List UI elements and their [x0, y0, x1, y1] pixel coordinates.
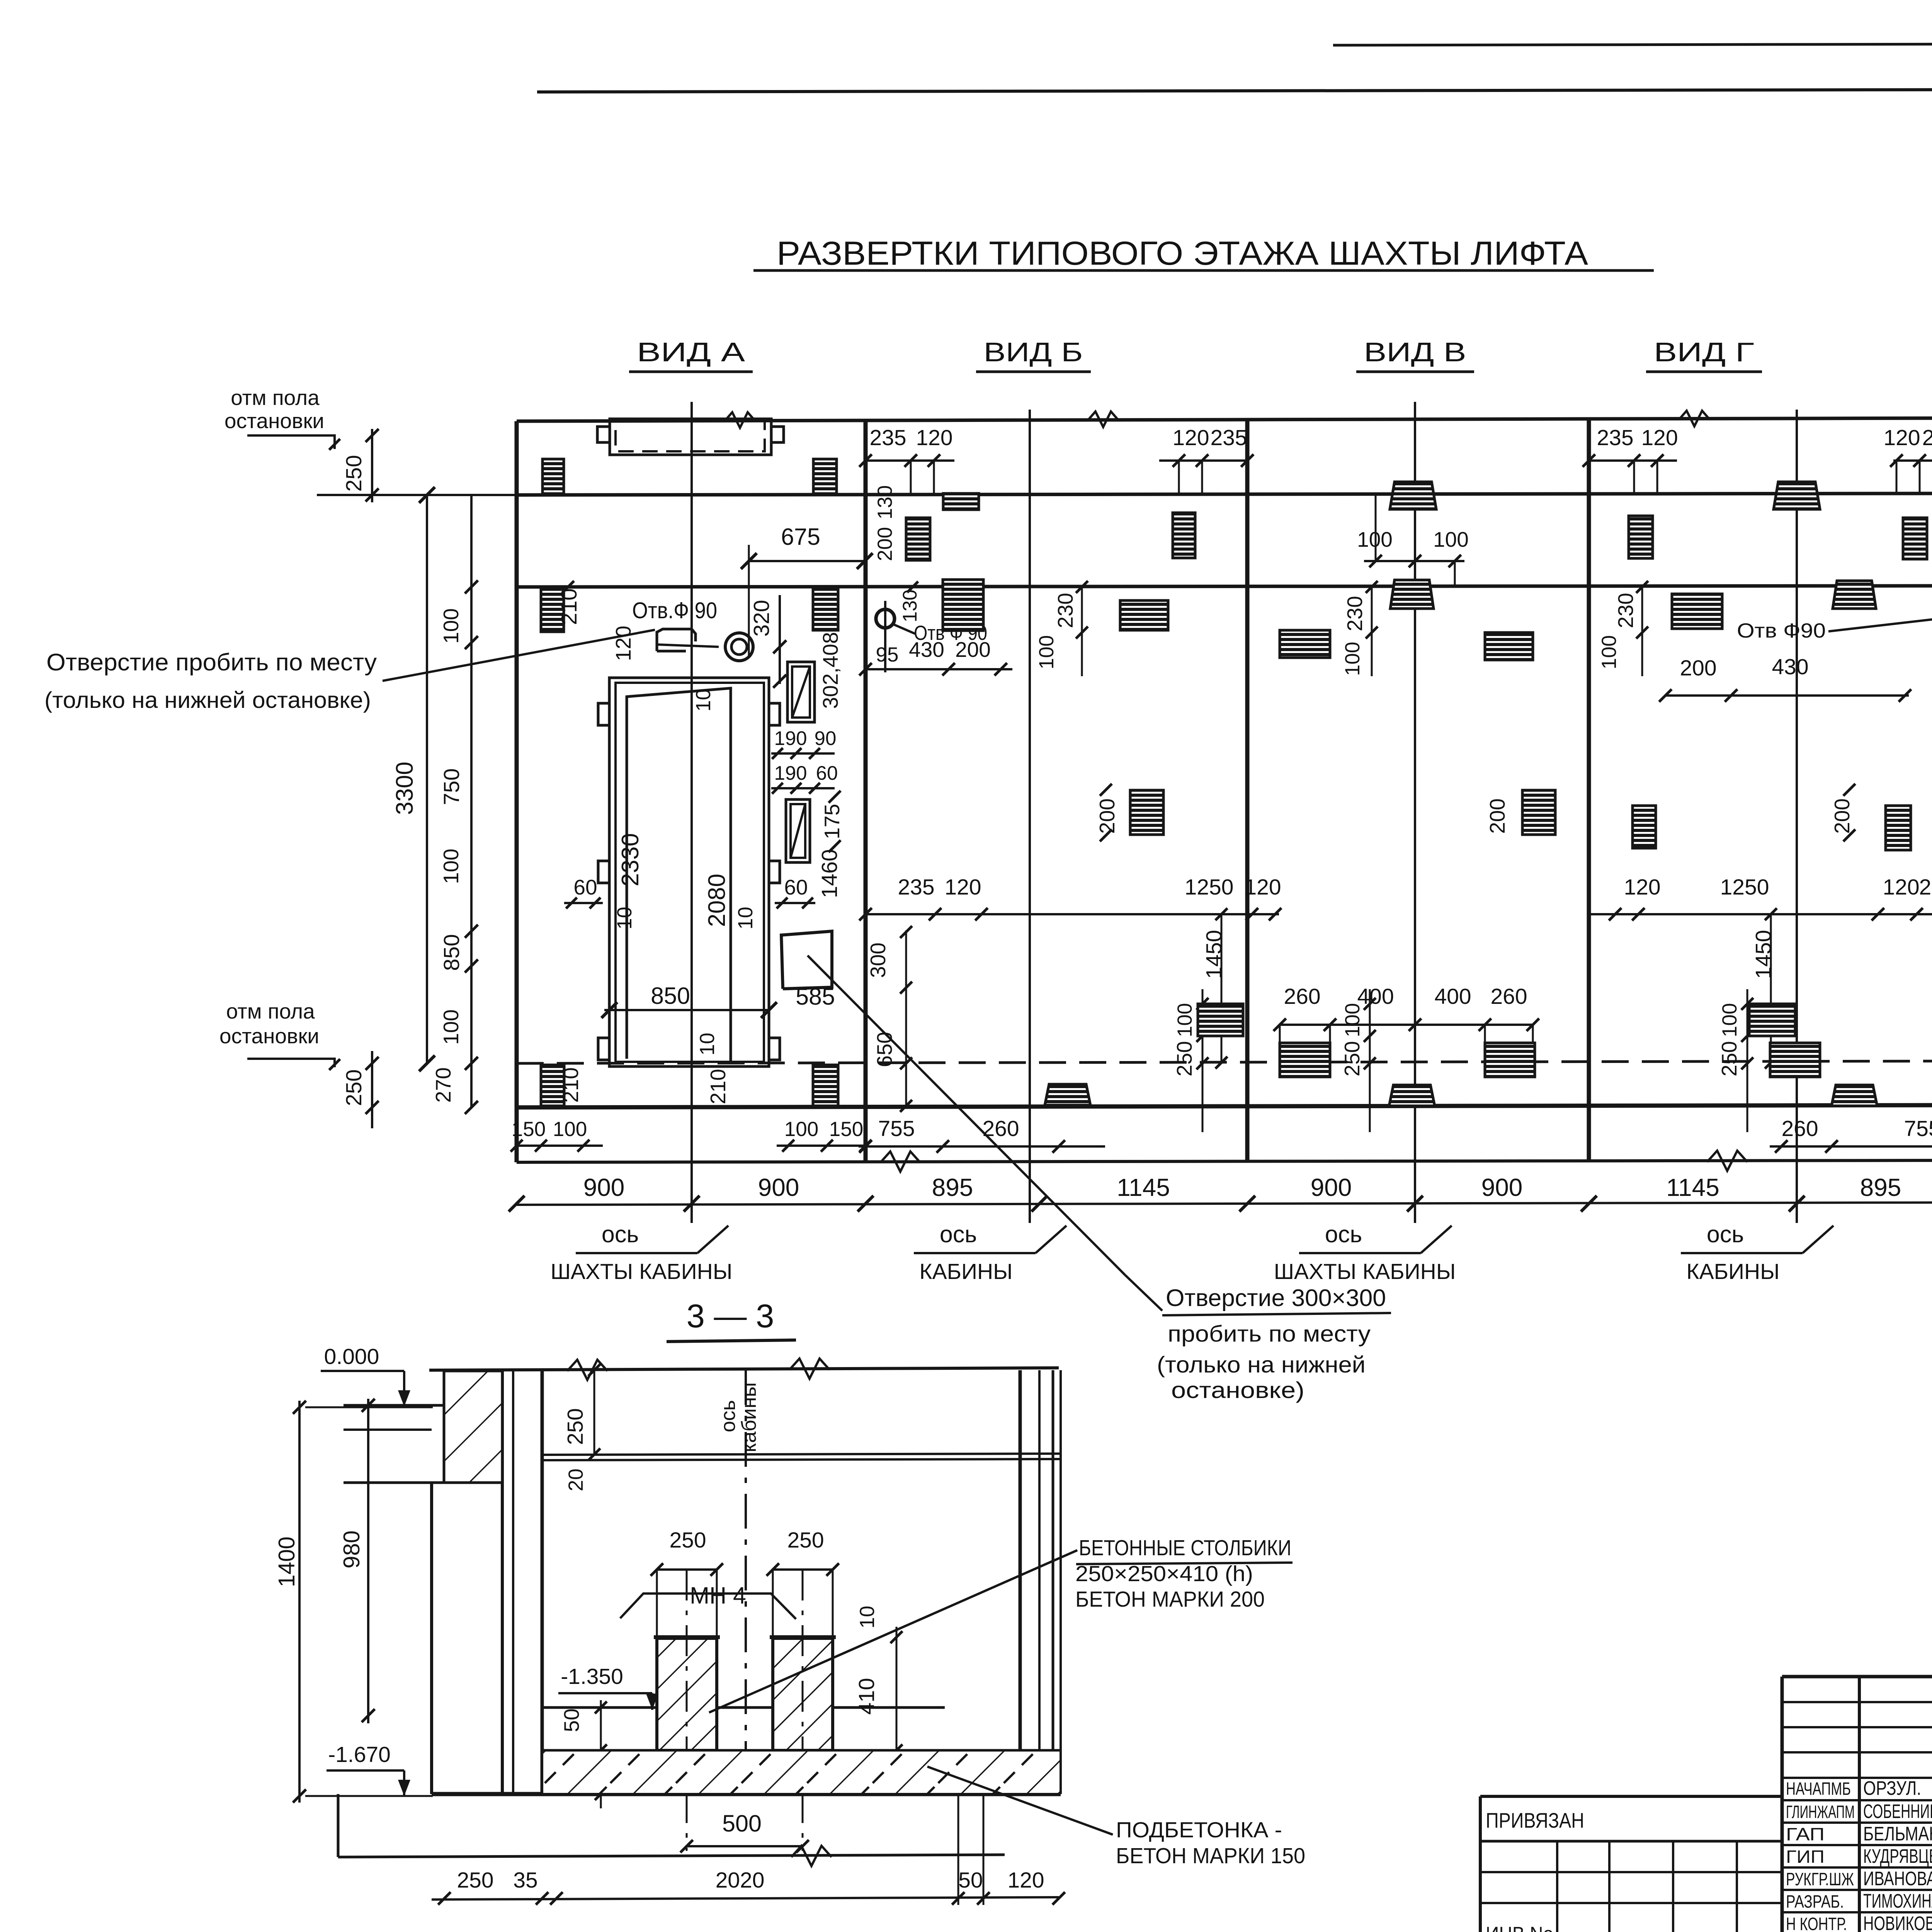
svg-text:895: 895 [932, 1173, 973, 1201]
svg-text:Отверстие пробить по месту: Отверстие пробить по месту [46, 649, 377, 676]
svg-text:130: 130 [874, 485, 896, 519]
svg-text:585: 585 [796, 983, 835, 1010]
svg-text:90: 90 [815, 727, 837, 749]
svg-text:400: 400 [1434, 984, 1471, 1009]
axis os kabiny [745, 1370, 747, 1796]
svg-text:120: 120 [1172, 425, 1209, 450]
svg-text:320: 320 [749, 600, 774, 636]
svg-text:430: 430 [909, 638, 944, 662]
wall bottom line [517, 1105, 1932, 1107]
svg-text:ТИМОХИНА.: ТИМОХИНА. [1863, 1890, 1932, 1912]
svg-text:ось: ось [1325, 1221, 1362, 1247]
trap block V bottom [1389, 1085, 1435, 1106]
svg-text:-1.350: -1.350 [561, 1664, 623, 1689]
svg-text:Н КОНТР.: Н КОНТР. [1786, 1914, 1847, 1932]
svg-text:100: 100 [439, 1009, 463, 1045]
svg-text:БЕЛЬМАН: БЕЛЬМАН [1863, 1823, 1932, 1845]
svg-text:755: 755 [878, 1116, 915, 1141]
svg-text:95: 95 [876, 643, 899, 666]
svg-text:270: 270 [431, 1067, 455, 1103]
vent block B mid-right [1120, 600, 1168, 630]
pit bottom line [432, 1792, 1061, 1796]
svg-text:1450: 1450 [1751, 930, 1776, 979]
vid A top niche inner dashed [616, 420, 765, 451]
door tabs left [598, 703, 609, 725]
line 1280 extension [317, 494, 517, 496]
svg-text:ИНВ.Nо: ИНВ.Nо [1486, 1923, 1553, 1932]
svg-text:260: 260 [1490, 984, 1527, 1009]
svg-text:(только на нижней остановке): (только на нижней остановке) [44, 687, 371, 713]
vent block G mid [1672, 594, 1722, 629]
svg-text:-1.670: -1.670 [328, 1742, 391, 1767]
view A-B boundary [864, 420, 868, 1162]
left edge wall line [515, 421, 519, 1162]
svg-text:230: 230 [1614, 593, 1638, 628]
vent block B top horizontal [943, 493, 979, 510]
vent block A top-left [543, 459, 564, 494]
svg-text:кабины: кабины [738, 1382, 760, 1452]
svg-text:НОВИКОВА: НОВИКОВА [1863, 1912, 1932, 1932]
svg-text:120: 120 [1641, 425, 1678, 450]
svg-text:850: 850 [439, 934, 464, 971]
leader to otverstie note [808, 956, 1125, 1275]
svg-text:260: 260 [1284, 984, 1320, 1009]
svg-text:ось: ось [717, 1400, 740, 1432]
svg-text:100: 100 [439, 608, 463, 644]
svg-text:100: 100 [1173, 1003, 1196, 1037]
svg-text:250: 250 [563, 1408, 588, 1445]
svg-text:250: 250 [669, 1528, 706, 1553]
svg-text:190: 190 [774, 762, 807, 784]
svg-text:ВИД Б: ВИД Б [984, 337, 1083, 367]
svg-text:остановки: остановки [219, 1024, 319, 1048]
svg-text:БЕТОННЫЕ СТОЛБИКИ: БЕТОННЫЕ СТОЛБИКИ [1079, 1536, 1291, 1560]
stamp left edge [1781, 1677, 1784, 1932]
leaders to columns [794, 1550, 1077, 1675]
trap block V mid [1390, 580, 1434, 609]
svg-text:2020: 2020 [716, 1868, 765, 1893]
opening 300x300 quad [781, 931, 832, 989]
svg-text:250: 250 [342, 455, 366, 492]
left wall verticals [430, 1483, 433, 1794]
attachment table left [1480, 1795, 1782, 1798]
vent block A mid-left [541, 588, 564, 632]
svg-text:235: 235 [1922, 425, 1932, 450]
svg-text:КАБИНЫ: КАБИНЫ [919, 1259, 1012, 1284]
svg-text:900: 900 [1311, 1173, 1352, 1201]
svg-text:ОРЗУЛ.: ОРЗУЛ. [1863, 1777, 1921, 1799]
svg-text:250: 250 [1172, 1041, 1196, 1077]
concrete column 2 [773, 1638, 833, 1750]
svg-text:2080: 2080 [704, 874, 730, 927]
dim 980 chain [367, 1399, 369, 1723]
svg-text:3300: 3300 [391, 762, 418, 815]
svg-text:ШАХТЫ КАБИНЫ: ШАХТЫ КАБИНЫ [1274, 1259, 1456, 1284]
trap block G mid [1833, 581, 1876, 609]
svg-text:100: 100 [1341, 642, 1364, 676]
floor level dash line [517, 1061, 1932, 1063]
svg-text:250: 250 [457, 1868, 493, 1893]
svg-text:остановки: остановки [224, 409, 324, 433]
svg-text:120: 120 [944, 875, 981, 900]
door tabs right [769, 703, 780, 725]
svg-text:остановке): остановке) [1171, 1378, 1304, 1403]
svg-text:302,408: 302,408 [818, 632, 842, 709]
svg-text:200: 200 [874, 527, 896, 561]
svg-text:КАБИНЫ: КАБИНЫ [1686, 1259, 1779, 1284]
svg-text:980: 980 [339, 1531, 364, 1568]
svg-text:35: 35 [513, 1868, 537, 1893]
svg-text:235: 235 [1597, 425, 1633, 450]
svg-text:190: 190 [774, 727, 807, 749]
left dim chain line [470, 495, 473, 1107]
svg-text:120: 120 [916, 425, 952, 450]
svg-text:130: 130 [899, 589, 921, 622]
vent block B middle [1130, 790, 1163, 835]
svg-text:60: 60 [784, 875, 808, 899]
vent block V mid-right [1485, 633, 1533, 660]
svg-text:10: 10 [613, 907, 636, 930]
svg-text:ШАХТЫ КАБИНЫ: ШАХТЫ КАБИНЫ [551, 1259, 733, 1284]
svg-text:ось: ось [602, 1221, 639, 1247]
ceiling double line [542, 1454, 1061, 1455]
door frame outer [609, 678, 769, 1066]
view B-V boundary [1245, 420, 1250, 1162]
dim 1400 chain [298, 1401, 301, 1803]
svg-text:675: 675 [781, 524, 820, 550]
svg-text:10: 10 [856, 1606, 879, 1629]
view V-G boundary [1587, 419, 1591, 1162]
door frame inner [616, 683, 764, 1062]
svg-text:ГАП: ГАП [1786, 1824, 1825, 1844]
vent block B upper [906, 518, 930, 560]
svg-text:100: 100 [439, 849, 463, 884]
svg-text:отм пола: отм пола [226, 999, 315, 1023]
svg-text:230: 230 [1343, 596, 1367, 631]
door leaf [627, 688, 731, 1061]
svg-text:235: 235 [898, 875, 934, 900]
svg-text:КУДРЯВЦЕВА: КУДРЯВЦЕВА [1863, 1845, 1932, 1867]
svg-text:120: 120 [1624, 875, 1660, 900]
svg-text:0.000: 0.000 [324, 1344, 379, 1369]
slot window 2 [786, 799, 810, 862]
svg-text:1250: 1250 [1185, 875, 1234, 900]
axis G line [1796, 410, 1798, 1223]
svg-text:РАЗРАБ.: РАЗРАБ. [1786, 1891, 1844, 1912]
svg-text:100: 100 [784, 1118, 818, 1141]
svg-text:ИВАНОВА: ИВАНОВА [1863, 1867, 1932, 1889]
otv f90 circle A [725, 633, 753, 661]
vent block A bottom-right [813, 1065, 838, 1106]
svg-text:230: 230 [1053, 593, 1077, 628]
svg-text:3 — 3: 3 — 3 [687, 1298, 774, 1335]
svg-text:50: 50 [560, 1708, 583, 1732]
vent block A mid-right [813, 588, 838, 630]
base bottom line [517, 1160, 1932, 1162]
column axes dashed [686, 1570, 688, 1851]
svg-text:120: 120 [1883, 875, 1919, 900]
svg-text:1145: 1145 [1117, 1173, 1170, 1201]
svg-text:200: 200 [1485, 798, 1509, 834]
axis V line [1414, 402, 1416, 1223]
svg-text:430: 430 [1772, 655, 1808, 679]
wall ledges [344, 1404, 444, 1407]
svg-text:пробить по месту: пробить по месту [1168, 1321, 1371, 1347]
svg-text:210: 210 [557, 588, 582, 625]
foundation slab [337, 1794, 340, 1857]
leader podbetonka [927, 1767, 1113, 1835]
vent block G low [1749, 1004, 1795, 1036]
vent block V middle [1522, 790, 1555, 835]
top border line short [1333, 43, 1932, 45]
svg-text:ПОДБЕТОНКА -: ПОДБЕТОНКА - [1116, 1818, 1282, 1842]
svg-text:1250: 1250 [1720, 875, 1769, 900]
svg-text:200: 200 [955, 638, 991, 662]
svg-text:900: 900 [1481, 1173, 1523, 1201]
svg-text:Отв.Ф 90: Отв.Ф 90 [632, 598, 717, 623]
svg-text:Отв Ф90: Отв Ф90 [1737, 619, 1826, 642]
vent block V low-right [1485, 1043, 1535, 1077]
vent block G middle-left [1633, 806, 1656, 848]
trap block B bottom [1045, 1084, 1090, 1105]
svg-text:РУКГР.ШЖ: РУКГР.ШЖ [1786, 1869, 1854, 1889]
niche right ear [771, 427, 784, 442]
svg-text:10: 10 [696, 1033, 719, 1056]
trap block G top [1774, 482, 1820, 509]
svg-text:300: 300 [866, 942, 890, 978]
vent block G middle-right [1886, 806, 1911, 850]
svg-text:60: 60 [573, 875, 597, 899]
svg-text:210: 210 [706, 1069, 730, 1104]
svg-text:260: 260 [982, 1116, 1019, 1141]
slot window 1 [787, 662, 815, 722]
vent block V low-left [1280, 1043, 1330, 1077]
svg-text:(только на нижней: (только на нижней [1157, 1352, 1366, 1378]
svg-text:СОБЕННИКОВ: СОБЕННИКОВ [1863, 1800, 1932, 1822]
svg-text:120: 120 [1244, 875, 1281, 900]
svg-text:1460: 1460 [817, 849, 842, 898]
svg-text:50: 50 [958, 1868, 983, 1893]
bottom dimension line [517, 1202, 1932, 1205]
svg-text:БЕТОН МАРКИ 150: БЕТОН МАРКИ 150 [1116, 1844, 1305, 1868]
svg-text:ГЛИНЖАПМ: ГЛИНЖАПМ [1786, 1802, 1855, 1822]
vent block A bottom-left [541, 1065, 564, 1106]
svg-text:НАЧАПМБ: НАЧАПМБ [1786, 1779, 1851, 1799]
elevation line 3 [517, 586, 1932, 587]
svg-text:100: 100 [1718, 1003, 1741, 1037]
svg-text:ПРИВЯЗАН: ПРИВЯЗАН [1486, 1808, 1584, 1832]
svg-text:60: 60 [816, 762, 838, 784]
svg-text:ВИД В: ВИД В [1364, 337, 1466, 367]
svg-text:120: 120 [1007, 1868, 1044, 1893]
svg-text:20: 20 [565, 1469, 587, 1492]
svg-text:150: 150 [512, 1118, 546, 1141]
svg-text:200: 200 [1095, 798, 1119, 834]
svg-text:235: 235 [1210, 425, 1247, 450]
podbetonka top [542, 1749, 1061, 1752]
right wall verticals [1019, 1370, 1022, 1794]
stamp row lines upper-left [1782, 1701, 1932, 1703]
left wall hatched block [444, 1371, 502, 1483]
svg-text:ВИД А: ВИД А [637, 337, 745, 367]
svg-text:120: 120 [611, 626, 635, 661]
concrete column 1 [657, 1638, 717, 1750]
svg-text:10: 10 [734, 907, 757, 930]
bottom dims 250 35 2020 50 120 [432, 1897, 1059, 1900]
svg-text:100: 100 [1341, 1003, 1364, 1037]
svg-text:250: 250 [787, 1528, 824, 1553]
otv circle B [876, 609, 895, 628]
vent block G low2 [1770, 1043, 1820, 1077]
elevation line 2 [517, 493, 1932, 495]
axis A line [690, 402, 693, 1223]
niche left ear [597, 427, 610, 442]
svg-text:1145: 1145 [1666, 1173, 1719, 1201]
vent block B ladder [943, 580, 983, 631]
svg-text:200: 200 [1830, 798, 1854, 834]
svg-text:250: 250 [1340, 1041, 1364, 1077]
svg-text:755: 755 [1904, 1116, 1932, 1141]
elevation top edge [517, 418, 1932, 421]
svg-text:150: 150 [829, 1118, 863, 1141]
hole note small shape [657, 629, 696, 651]
svg-text:260: 260 [1781, 1116, 1818, 1141]
podbetonka hatch [543, 1752, 1060, 1793]
svg-text:10: 10 [692, 689, 715, 712]
svg-text:БЕТОН МАРКИ 200: БЕТОН МАРКИ 200 [1075, 1587, 1265, 1612]
vent block B right upper [1173, 513, 1195, 558]
svg-text:250×250×410 (h): 250×250×410 (h) [1075, 1561, 1253, 1586]
stamp outer top [1782, 1675, 1932, 1679]
stamp verticals [1858, 1677, 1861, 1932]
svg-text:895: 895 [1860, 1173, 1901, 1201]
svg-text:100: 100 [1598, 635, 1621, 669]
axis B line [1029, 410, 1031, 1223]
svg-text:2330: 2330 [617, 833, 644, 886]
svg-text:235: 235 [869, 425, 906, 450]
svg-text:235: 235 [1919, 875, 1932, 900]
vent block V mid-left [1280, 630, 1330, 658]
svg-text:100: 100 [1035, 635, 1058, 669]
vent block A top-right [813, 459, 837, 494]
svg-text:200: 200 [1680, 656, 1716, 680]
svg-text:ГИП: ГИП [1786, 1847, 1825, 1867]
svg-text:250: 250 [1717, 1041, 1741, 1077]
svg-text:850: 850 [651, 983, 690, 1009]
svg-text:РАЗВЕРТКИ ТИПОВОГО ЭТАЖА ШАХ: РАЗВЕРТКИ ТИПОВОГО ЭТАЖА ШАХТЫ ЛИФТА [777, 235, 1588, 272]
svg-text:1400: 1400 [274, 1536, 299, 1587]
svg-text:750: 750 [439, 768, 464, 805]
svg-text:100: 100 [553, 1118, 587, 1141]
vent block G upper-left [1629, 516, 1653, 558]
trap block G bottom [1832, 1085, 1877, 1106]
svg-text:отм пола: отм пола [231, 386, 320, 410]
svg-text:ось: ось [1707, 1221, 1744, 1247]
svg-text:1450: 1450 [1202, 930, 1226, 979]
svg-text:175: 175 [820, 804, 844, 839]
trap block V top [1390, 482, 1436, 509]
vent block G upper-right [1903, 518, 1927, 559]
svg-text:900: 900 [583, 1173, 625, 1201]
top border line long [537, 88, 1932, 92]
pit ledge lines [542, 1706, 657, 1709]
svg-text:500: 500 [722, 1810, 762, 1837]
svg-text:900: 900 [758, 1173, 799, 1201]
svg-text:650: 650 [872, 1032, 896, 1067]
svg-text:ВИД Г: ВИД Г [1654, 337, 1754, 367]
svg-text:410: 410 [854, 1678, 879, 1714]
svg-text:Отверстие 300×300: Отверстие 300×300 [1166, 1285, 1386, 1311]
svg-text:100: 100 [1433, 527, 1469, 551]
svg-text:120: 120 [1883, 425, 1920, 450]
section top line [429, 1368, 1059, 1370]
svg-text:МН 4: МН 4 [690, 1582, 746, 1609]
vent block B low [1198, 1004, 1243, 1036]
svg-text:ось: ось [940, 1221, 977, 1247]
vid A top niche outer [610, 419, 771, 455]
stamp row lines names [1782, 1777, 1932, 1779]
leader line from hole note [383, 630, 655, 681]
svg-text:250: 250 [342, 1069, 366, 1106]
